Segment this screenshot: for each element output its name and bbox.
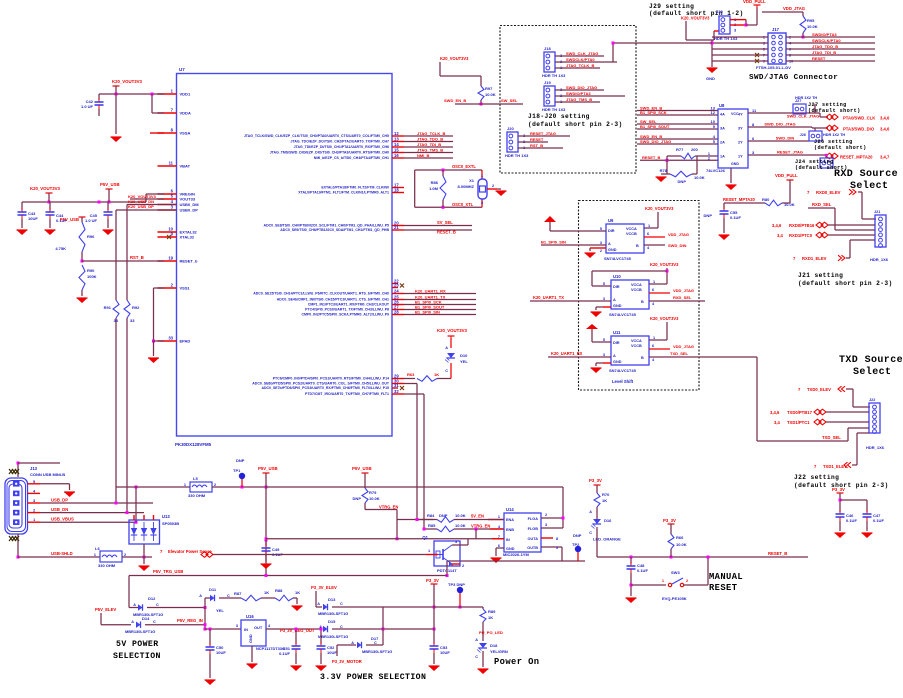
svg-text:JTAG_TDO/EZP_DO/TSI0_CH2/PTA2/: JTAG_TDO/EZP_DO/TSI0_CH2/PTA2/UART0_TX/F… bbox=[291, 140, 390, 144]
svg-text:RXD1/PTC0: RXD1/PTC0 bbox=[789, 233, 813, 238]
svg-text:OUTB: OUTB bbox=[527, 546, 538, 550]
svg-text:R92: R92 bbox=[132, 305, 140, 310]
svg-text:3: 3 bbox=[603, 297, 605, 301]
svg-text:A: A bbox=[613, 354, 616, 358]
svg-text:J29: J29 bbox=[716, 9, 723, 14]
svg-text:CMP0_IN2/PTC5/SPI0_SCK/LPTMR0_: CMP0_IN2/PTC5/SPI0_SCK/LPTMR0_ALT2/LLWU_… bbox=[302, 313, 390, 317]
svg-text:JTAG_TDI_B: JTAG_TDI_B bbox=[812, 50, 836, 55]
svg-text:10UF: 10UF bbox=[440, 650, 450, 655]
svg-text:33: 33 bbox=[114, 318, 119, 323]
svg-text:PTC4/SPI0_PCS0/UART1_TX/FTM0_C: PTC4/SPI0_PCS0/UART1_TX/FTM0_CH3/LLWU_P8 bbox=[305, 308, 389, 312]
svg-text:B1_SPI0_SIN: B1_SPI0_SIN bbox=[541, 240, 566, 245]
svg-text:USB_VBUS: USB_VBUS bbox=[51, 517, 74, 522]
svg-text:U16: U16 bbox=[246, 614, 254, 619]
svg-text:Select: Select bbox=[853, 366, 891, 378]
svg-text:K20_VOUT3V3: K20_VOUT3V3 bbox=[112, 79, 142, 84]
svg-text:3,4,6: 3,4,6 bbox=[880, 115, 890, 120]
svg-text:P3_3V_ELEV: P3_3V_ELEV bbox=[311, 585, 337, 590]
svg-text:1: 1 bbox=[498, 515, 500, 519]
svg-text:EPAD: EPAD bbox=[180, 339, 191, 344]
svg-text:R96: R96 bbox=[87, 234, 95, 239]
svg-text:SWDCLK/PTA0: SWDCLK/PTA0 bbox=[812, 38, 841, 43]
svg-text:1K: 1K bbox=[264, 590, 269, 595]
svg-text:B: B bbox=[641, 356, 644, 360]
svg-text:RXD Source: RXD Source bbox=[834, 169, 898, 180]
svg-text:21: 21 bbox=[394, 225, 399, 230]
svg-text:HDR 1X2 TH: HDR 1X2 TH bbox=[795, 96, 817, 100]
svg-text:SWD_DIN: SWD_DIN bbox=[776, 136, 795, 141]
svg-text:A: A bbox=[475, 638, 478, 642]
svg-text:3Y: 3Y bbox=[738, 127, 743, 131]
svg-text:PTC6/CMP0_IN0/PTD4/SPI0_PCS1/U: PTC6/CMP0_IN0/PTD4/SPI0_PCS1/UART0_RTS/F… bbox=[273, 377, 389, 381]
svg-text:R91: R91 bbox=[104, 305, 112, 310]
svg-text:3A: 3A bbox=[720, 127, 725, 131]
svg-text:RESET_JTAG: RESET_JTAG bbox=[530, 131, 556, 136]
svg-text:A: A bbox=[608, 242, 611, 246]
svg-text:3,4: 3,4 bbox=[774, 420, 780, 425]
svg-text:8: 8 bbox=[556, 537, 558, 541]
svg-text:1: 1 bbox=[653, 336, 655, 340]
svg-text:31: 31 bbox=[394, 383, 399, 388]
svg-text:1.0 UF: 1.0 UF bbox=[81, 104, 94, 109]
svg-text:J21 setting: J21 setting bbox=[798, 272, 843, 279]
svg-text:3,4: 3,4 bbox=[777, 233, 783, 238]
svg-text:VTRG_EN: VTRG_EN bbox=[379, 505, 398, 510]
svg-text:VDD_JTAG: VDD_JTAG bbox=[783, 6, 805, 11]
svg-text:0.1UF: 0.1UF bbox=[873, 518, 884, 523]
svg-text:P3_3V: P3_3V bbox=[663, 518, 676, 523]
svg-text:DIR: DIR bbox=[608, 229, 615, 233]
svg-text:RESET_B: RESET_B bbox=[768, 551, 787, 556]
svg-text:RST_B: RST_B bbox=[130, 255, 144, 260]
svg-text:MBR130LSFT1G: MBR130LSFT1G bbox=[318, 611, 348, 616]
svg-text:R97: R97 bbox=[485, 86, 493, 91]
svg-text:SWD_DIO_JTAG: SWD_DIO_JTAG bbox=[566, 85, 597, 90]
svg-text:TXD0/PTB17: TXD0/PTB17 bbox=[787, 410, 813, 415]
svg-text:5V POWER: 5V POWER bbox=[116, 640, 159, 649]
svg-text:JTAG_TCLK_B: JTAG_TCLK_B bbox=[566, 63, 594, 68]
svg-text:J20: J20 bbox=[507, 126, 514, 131]
svg-text:DIR: DIR bbox=[613, 285, 620, 289]
svg-text:1K: 1K bbox=[295, 590, 300, 595]
svg-text:12: 12 bbox=[394, 131, 399, 136]
svg-text:10.0K: 10.0K bbox=[676, 542, 687, 547]
svg-text:RESET_MPTA20: RESET_MPTA20 bbox=[723, 197, 755, 202]
svg-text:K20_USB_DN: K20_USB_DN bbox=[128, 199, 154, 204]
svg-text:U13: U13 bbox=[162, 514, 170, 519]
svg-text:D15: D15 bbox=[328, 619, 336, 624]
svg-text:RXD1_ELEV: RXD1_ELEV bbox=[802, 256, 827, 261]
svg-text:NMI_B: NMI_B bbox=[417, 153, 430, 158]
svg-text:XTAL0/PTA19/FTM1_FLT1/FTM_CLKI: XTAL0/PTA19/FTM1_FLT1/FTM_CLKIN1/LPTMR0_… bbox=[298, 191, 389, 195]
svg-text:C: C bbox=[475, 655, 478, 659]
svg-text:32: 32 bbox=[394, 389, 399, 394]
svg-text:JTAG_TMS_B: JTAG_TMS_B bbox=[417, 148, 443, 153]
svg-text:ENA: ENA bbox=[506, 518, 514, 522]
svg-text:PTA3/SWD_DIO: PTA3/SWD_DIO bbox=[843, 127, 875, 132]
svg-text:SWDIO/PTA3: SWDIO/PTA3 bbox=[812, 32, 837, 37]
svg-text:1K: 1K bbox=[434, 372, 439, 377]
svg-text:HDR TH 1X3: HDR TH 1X3 bbox=[542, 107, 566, 112]
svg-text:USB-SHLD: USB-SHLD bbox=[51, 551, 73, 556]
svg-text:JTAG_TDI/EZP_DI/TSI0_CH1/PTA1/: JTAG_TDI/EZP_DI/TSI0_CH1/PTA1/UART0_RX/F… bbox=[294, 145, 389, 149]
svg-text:C: C bbox=[445, 369, 448, 373]
svg-text:HDR_1X6: HDR_1X6 bbox=[870, 257, 889, 262]
svg-text:SN74LVC1T45: SN74LVC1T45 bbox=[609, 368, 637, 373]
svg-text:USB_DN: USB_DN bbox=[51, 507, 68, 512]
svg-text:VSS1: VSS1 bbox=[180, 286, 191, 291]
svg-text:K20_VOUT3V3: K20_VOUT3V3 bbox=[645, 206, 674, 211]
svg-text:1: 1 bbox=[184, 483, 186, 487]
svg-text:SWD_EN_B: SWD_EN_B bbox=[444, 98, 466, 103]
svg-text:1: 1 bbox=[481, 174, 483, 178]
svg-text:P5V_REG_IN: P5V_REG_IN bbox=[177, 618, 203, 623]
svg-text:TXD0_ELEV: TXD0_ELEV bbox=[807, 387, 831, 392]
svg-text:28: 28 bbox=[394, 310, 399, 315]
svg-text:(default short pin 2-3): (default short pin 2-3) bbox=[528, 121, 623, 128]
svg-text:10.0K: 10.0K bbox=[694, 175, 705, 180]
svg-text:ADC0_SE6b/PTD5/SPI0_PCS2/UART0: ADC0_SE6b/PTD5/SPI0_PCS2/UART0_CTS/UART0… bbox=[252, 382, 390, 386]
svg-text:10UF: 10UF bbox=[216, 650, 226, 655]
svg-text:2: 2 bbox=[600, 249, 602, 253]
svg-text:1.0 UF: 1.0 UF bbox=[85, 218, 98, 223]
svg-text:10UF: 10UF bbox=[327, 650, 337, 655]
svg-text:VDD_JTAG: VDD_JTAG bbox=[668, 232, 689, 237]
svg-text:IN: IN bbox=[506, 538, 510, 542]
svg-text:100K: 100K bbox=[87, 274, 97, 279]
svg-text:DNP: DNP bbox=[236, 458, 245, 463]
svg-text:J29 setting: J29 setting bbox=[649, 3, 694, 10]
svg-text:R63: R63 bbox=[407, 372, 415, 377]
svg-text:JTAG_TDI_B: JTAG_TDI_B bbox=[417, 142, 441, 147]
svg-text:GND: GND bbox=[613, 304, 622, 308]
svg-text:(default short pin 2-3): (default short pin 2-3) bbox=[798, 280, 893, 287]
svg-text:0.1UF: 0.1UF bbox=[730, 215, 741, 220]
svg-text:J22 setting: J22 setting bbox=[794, 474, 839, 481]
svg-text:C: C bbox=[156, 603, 159, 607]
svg-text:U10: U10 bbox=[613, 274, 621, 279]
svg-text:EVQ-PE105K: EVQ-PE105K bbox=[662, 596, 687, 601]
svg-text:C: C bbox=[340, 602, 343, 606]
svg-text:D16: D16 bbox=[604, 518, 612, 523]
svg-text:VCCB: VCCB bbox=[631, 344, 642, 348]
svg-text:IN: IN bbox=[244, 627, 248, 632]
svg-text:SN74LVC1T45: SN74LVC1T45 bbox=[609, 312, 637, 317]
svg-text:3: 3 bbox=[236, 624, 238, 628]
svg-text:K20_UART1_RX: K20_UART1_RX bbox=[415, 289, 446, 294]
svg-text:TXD_SEL: TXD_SEL bbox=[822, 435, 841, 440]
svg-text:DIR: DIR bbox=[613, 341, 620, 345]
svg-text:HDR_1X6: HDR_1X6 bbox=[866, 445, 885, 450]
svg-text:A: A bbox=[317, 602, 320, 606]
svg-text:4Y: 4Y bbox=[738, 113, 743, 117]
svg-text:VDD1: VDD1 bbox=[180, 92, 191, 97]
svg-text:PU_PO_LED: PU_PO_LED bbox=[479, 630, 503, 635]
svg-text:D11: D11 bbox=[209, 587, 217, 592]
svg-text:D18: D18 bbox=[490, 643, 498, 648]
svg-text:10.0K: 10.0K bbox=[455, 523, 466, 528]
svg-text:P5V_USB: P5V_USB bbox=[258, 466, 278, 471]
svg-text:RESET: RESET bbox=[812, 56, 826, 61]
svg-text:330 OHM: 330 OHM bbox=[98, 563, 116, 568]
svg-text:33: 33 bbox=[168, 336, 173, 341]
svg-text:200: 200 bbox=[691, 147, 698, 152]
svg-text:330 OHM: 330 OHM bbox=[188, 493, 206, 498]
svg-text:1: 1 bbox=[662, 579, 664, 583]
svg-text:3: 3 bbox=[455, 540, 457, 544]
svg-text:P5V_TRG_USB: P5V_TRG_USB bbox=[153, 569, 183, 574]
svg-text:3,4,6: 3,4,6 bbox=[772, 223, 782, 228]
svg-text:K20_VOUT3V3: K20_VOUT3V3 bbox=[440, 56, 469, 61]
svg-text:0.1UF: 0.1UF bbox=[637, 568, 648, 573]
svg-text:C: C bbox=[589, 531, 592, 535]
svg-text:3,4,6: 3,4,6 bbox=[770, 410, 780, 415]
svg-text:MIC2026-1YM: MIC2026-1YM bbox=[503, 552, 529, 557]
svg-text:15: 15 bbox=[394, 148, 399, 153]
svg-text:FLGB: FLGB bbox=[528, 527, 539, 531]
svg-text:4A: 4A bbox=[720, 113, 725, 117]
svg-text:RESET_B: RESET_B bbox=[642, 155, 661, 160]
svg-text:3: 3 bbox=[600, 241, 602, 245]
svg-text:B1_SPI0_SIN: B1_SPI0_SIN bbox=[415, 310, 440, 315]
svg-text:R87: R87 bbox=[234, 591, 242, 596]
svg-text:SW3: SW3 bbox=[671, 570, 680, 575]
svg-text:RESET_JTAG: RESET_JTAG bbox=[777, 150, 803, 155]
svg-text:10.0K: 10.0K bbox=[369, 496, 380, 501]
svg-text:ADC0_SE8/TSI0_CH0/PTB0/I2C0_SC: ADC0_SE8/TSI0_CH0/PTB0/I2C0_SCL/FTM1_CH0… bbox=[264, 224, 390, 228]
svg-text:Q1: Q1 bbox=[422, 535, 428, 540]
svg-text:NMI_b/EZP_CS_b/TSI0_CH4/PTA4/F: NMI_b/EZP_CS_b/TSI0_CH4/PTA4/FTM0_CH1 bbox=[314, 156, 389, 160]
svg-text:HDR TH 1X3: HDR TH 1X3 bbox=[542, 73, 566, 78]
svg-text:16: 16 bbox=[394, 153, 399, 158]
svg-text:CONN USB MINI-B: CONN USB MINI-B bbox=[30, 472, 65, 477]
svg-text:K20_VOUT3V3: K20_VOUT3V3 bbox=[650, 316, 679, 321]
svg-text:VDDA: VDDA bbox=[180, 111, 191, 116]
svg-text:PTA0/SWD_CLK: PTA0/SWD_CLK bbox=[843, 115, 875, 120]
svg-text:TXD Source: TXD Source bbox=[839, 355, 903, 366]
svg-text:SWD_DIN: SWD_DIN bbox=[668, 243, 687, 248]
svg-text:R70: R70 bbox=[602, 492, 610, 497]
svg-text:74LVC126: 74LVC126 bbox=[706, 168, 726, 173]
svg-text:VOUT33: VOUT33 bbox=[180, 197, 196, 202]
svg-text:3.3V POWER SELECTION: 3.3V POWER SELECTION bbox=[320, 673, 426, 682]
svg-text:R90: R90 bbox=[87, 268, 95, 273]
svg-text:K20_VOUT3V3: K20_VOUT3V3 bbox=[437, 328, 467, 333]
svg-text:3: 3 bbox=[545, 523, 547, 527]
svg-text:J18-J20 setting: J18-J20 setting bbox=[528, 113, 590, 120]
svg-text:2: 2 bbox=[708, 157, 710, 161]
svg-text:5: 5 bbox=[603, 338, 605, 342]
svg-text:SWD_DIO_JTAG: SWD_DIO_JTAG bbox=[640, 139, 671, 144]
svg-text:RXD_SEL: RXD_SEL bbox=[812, 202, 832, 207]
svg-text:ENB: ENB bbox=[506, 528, 514, 532]
svg-text:U14: U14 bbox=[506, 507, 514, 512]
svg-text:6: 6 bbox=[652, 288, 654, 292]
svg-text:5: 5 bbox=[556, 546, 558, 550]
svg-text:K20_VOUT3V3: K20_VOUT3V3 bbox=[681, 16, 710, 21]
svg-text:TXD1/PTC1: TXD1/PTC1 bbox=[787, 420, 810, 425]
svg-text:VCCA: VCCA bbox=[631, 283, 642, 287]
svg-text:3: 3 bbox=[603, 353, 605, 357]
svg-text:Level Shift: Level Shift bbox=[612, 379, 634, 384]
svg-text:A: A bbox=[199, 594, 202, 598]
svg-text:14: 14 bbox=[394, 142, 399, 147]
svg-text:OSC0_XTL: OSC0_XTL bbox=[452, 202, 474, 207]
svg-text:A: A bbox=[133, 603, 136, 607]
svg-text:MBR130LSFT1G: MBR130LSFT1G bbox=[318, 634, 348, 639]
svg-text:3,4,6: 3,4,6 bbox=[880, 127, 890, 132]
svg-text:TXD_SEL: TXD_SEL bbox=[670, 351, 689, 356]
svg-text:P3_3V: P3_3V bbox=[426, 578, 439, 583]
svg-text:K20_VOUT3V3: K20_VOUT3V3 bbox=[128, 194, 157, 199]
svg-text:YEL: YEL bbox=[460, 359, 468, 364]
svg-text:VDD_JTAG: VDD_JTAG bbox=[673, 344, 694, 349]
svg-text:GND: GND bbox=[706, 76, 715, 81]
svg-text:5: 5 bbox=[600, 227, 602, 231]
svg-text:OSC0_EXTL: OSC0_EXTL bbox=[452, 164, 476, 169]
svg-text:P5V_ELEV: P5V_ELEV bbox=[95, 607, 116, 612]
svg-text:VCCA: VCCA bbox=[631, 339, 642, 343]
svg-text:R77: R77 bbox=[676, 147, 684, 152]
svg-text:L5: L5 bbox=[193, 476, 198, 481]
svg-text:OUTA: OUTA bbox=[528, 537, 539, 541]
svg-text:Select: Select bbox=[850, 180, 888, 192]
svg-text:PK30DX128VFM5: PK30DX128VFM5 bbox=[175, 442, 212, 447]
svg-text:0.1UF: 0.1UF bbox=[846, 518, 857, 523]
svg-text:D13: D13 bbox=[328, 597, 336, 602]
svg-text:SELECTION: SELECTION bbox=[113, 652, 161, 661]
svg-text:P5V_USB: P5V_USB bbox=[100, 182, 120, 187]
svg-text:DNP: DNP bbox=[678, 179, 687, 184]
svg-text:USB0_DM: USB0_DM bbox=[180, 202, 200, 207]
svg-text:GND: GND bbox=[608, 248, 617, 252]
svg-text:DNP: DNP bbox=[704, 213, 713, 218]
svg-text:U8: U8 bbox=[719, 103, 725, 108]
svg-text:P3_3V_MOTOR: P3_3V_MOTOR bbox=[332, 659, 362, 664]
svg-text:2Y: 2Y bbox=[738, 141, 743, 145]
svg-text:6: 6 bbox=[647, 232, 649, 236]
svg-text:K20_VOUT3V3: K20_VOUT3V3 bbox=[650, 262, 679, 267]
svg-text:3,4,7: 3,4,7 bbox=[880, 154, 890, 159]
svg-text:RST_B: RST_B bbox=[530, 143, 543, 148]
svg-text:VDD_PULL: VDD_PULL bbox=[743, 0, 766, 4]
svg-text:L6: L6 bbox=[95, 546, 100, 551]
svg-text:VSSA: VSSA bbox=[180, 131, 191, 136]
svg-text:ADC0_SE15/TSI0_CH14/PTC1/LLWU_: ADC0_SE15/TSI0_CH14/PTC1/LLWU_P6/RTC_CLK… bbox=[253, 292, 389, 296]
svg-text:33: 33 bbox=[130, 318, 135, 323]
svg-text:JTAG_TMS_B: JTAG_TMS_B bbox=[566, 97, 592, 102]
svg-text:13: 13 bbox=[394, 137, 399, 142]
svg-text:HDR 1X2 TH: HDR 1X2 TH bbox=[823, 133, 845, 137]
svg-text:USB0_DP: USB0_DP bbox=[180, 208, 199, 213]
svg-text:ADC0_SE4b/CMP1_IN0/TSI0_CH15/P: ADC0_SE4b/CMP1_IN0/TSI0_CH15/PTC2/UART1_… bbox=[277, 298, 389, 302]
svg-text:10.0K: 10.0K bbox=[807, 24, 818, 29]
svg-text:K20_VOUT3V3: K20_VOUT3V3 bbox=[30, 186, 60, 191]
svg-text:GND: GND bbox=[613, 360, 622, 364]
svg-text:CMP1_IN1/PTC3/UART1_RX/FTM0_CH: CMP1_IN1/PTC3/UART1_RX/FTM0_CH2/CLKOUT bbox=[308, 303, 390, 307]
svg-text:B1_SPI0_SOUT: B1_SPI0_SOUT bbox=[640, 124, 670, 129]
svg-text:FLGA: FLGA bbox=[528, 517, 539, 521]
svg-text:1: 1 bbox=[653, 280, 655, 284]
svg-text:0.1UF: 0.1UF bbox=[279, 651, 290, 656]
svg-text:1: 1 bbox=[708, 152, 710, 156]
svg-text:1: 1 bbox=[428, 549, 430, 553]
svg-text:XTAL32: XTAL32 bbox=[180, 235, 195, 240]
svg-text:SWDIO/PTA3: SWDIO/PTA3 bbox=[566, 91, 591, 96]
svg-text:2: 2 bbox=[545, 513, 547, 517]
svg-text:SV_SEL: SV_SEL bbox=[437, 220, 453, 225]
svg-text:R79: R79 bbox=[369, 490, 377, 495]
svg-text:TP3 DNP: TP3 DNP bbox=[448, 582, 465, 587]
svg-text:B1_SPI0_SCK: B1_SPI0_SCK bbox=[640, 110, 667, 115]
svg-text:19: 19 bbox=[168, 256, 173, 261]
svg-text:R84: R84 bbox=[427, 513, 435, 518]
svg-text:B: B bbox=[636, 244, 639, 248]
svg-text:R80: R80 bbox=[762, 197, 770, 202]
svg-text:USB_DP: USB_DP bbox=[51, 498, 68, 503]
svg-text:P5V_USB: P5V_USB bbox=[352, 466, 372, 471]
svg-text:MBR130LSFT1G: MBR130LSFT1G bbox=[125, 629, 155, 634]
svg-text:U9: U9 bbox=[608, 218, 614, 223]
svg-text:GND: GND bbox=[731, 162, 739, 166]
svg-text:JTAG_TCLK/SWD_CLK/EZP_CLK/TSI0: JTAG_TCLK/SWD_CLK/EZP_CLK/TSI0_CH0/PTA0/… bbox=[244, 134, 389, 138]
svg-text:24: 24 bbox=[394, 289, 399, 294]
svg-text:(default short): (default short) bbox=[814, 145, 867, 151]
svg-text:D12: D12 bbox=[148, 596, 156, 601]
svg-text:SWD_CLK_JTAG: SWD_CLK_JTAG bbox=[566, 51, 598, 56]
svg-text:X1: X1 bbox=[469, 178, 475, 183]
svg-text:ADC0_SE9/TSI0_CH6/PTB1/I2C0_SD: ADC0_SE9/TSI0_CH6/PTB1/I2C0_SDA/FTM1_CH1… bbox=[280, 228, 389, 232]
svg-text:K20_UART1_TX: K20_UART1_TX bbox=[533, 295, 564, 300]
svg-text:J21: J21 bbox=[874, 210, 880, 214]
svg-text:J17: J17 bbox=[772, 27, 780, 32]
svg-text:U11: U11 bbox=[613, 330, 621, 335]
svg-text:ADC0_SE7b/PTD6/SPI0_PCS3/UART0: ADC0_SE7b/PTD6/SPI0_PCS3/UART0_RX/FTM0_C… bbox=[261, 386, 389, 390]
svg-text:OUT: OUT bbox=[254, 625, 263, 630]
svg-text:RXD0_ELEV: RXD0_ELEV bbox=[816, 190, 841, 195]
svg-text:J13: J13 bbox=[30, 466, 38, 471]
svg-text:1A: 1A bbox=[720, 155, 725, 159]
svg-text:SWDCLK/PTA0: SWDCLK/PTA0 bbox=[566, 57, 595, 62]
svg-text:RESET: RESET bbox=[530, 137, 544, 142]
svg-text:MANUAL: MANUAL bbox=[709, 572, 743, 582]
svg-text:SW_SEL: SW_SEL bbox=[501, 98, 518, 103]
svg-text:DNP: DNP bbox=[573, 533, 582, 538]
svg-text:5V_EN: 5V_EN bbox=[471, 514, 484, 519]
svg-text:D10: D10 bbox=[460, 353, 468, 358]
svg-text:P3_3V: P3_3V bbox=[832, 487, 845, 492]
svg-text:R78: R78 bbox=[660, 168, 668, 173]
svg-text:VDD_PULL: VDD_PULL bbox=[775, 173, 798, 178]
svg-text:U7: U7 bbox=[179, 67, 185, 72]
svg-text:EXTAL0/PTA18/FTM0_FLT2/FTM_CLK: EXTAL0/PTA18/FTM0_FLT2/FTM_CLKIN0 bbox=[321, 186, 389, 190]
svg-text:JTAG_TDO_B: JTAG_TDO_B bbox=[812, 44, 838, 49]
svg-text:SWD/JTAG Connector: SWD/JTAG Connector bbox=[749, 74, 838, 82]
svg-text:GND: GND bbox=[506, 547, 515, 551]
svg-text:5: 5 bbox=[603, 282, 605, 286]
svg-text:R86: R86 bbox=[431, 180, 439, 185]
svg-text:VCCA: VCCA bbox=[626, 227, 637, 231]
svg-text:P5V_USB: P5V_USB bbox=[60, 217, 79, 222]
svg-text:6: 6 bbox=[652, 344, 654, 348]
svg-text:JTAG_TDO_B: JTAG_TDO_B bbox=[417, 137, 443, 142]
svg-text:HDR TH 1X3: HDR TH 1X3 bbox=[505, 153, 529, 158]
svg-text:RESET_b: RESET_b bbox=[180, 259, 199, 264]
svg-text:RXD0/PTB16: RXD0/PTB16 bbox=[789, 223, 815, 228]
svg-text:10UF: 10UF bbox=[28, 216, 38, 221]
svg-text:R95: R95 bbox=[807, 18, 815, 23]
svg-text:2A: 2A bbox=[720, 141, 725, 145]
